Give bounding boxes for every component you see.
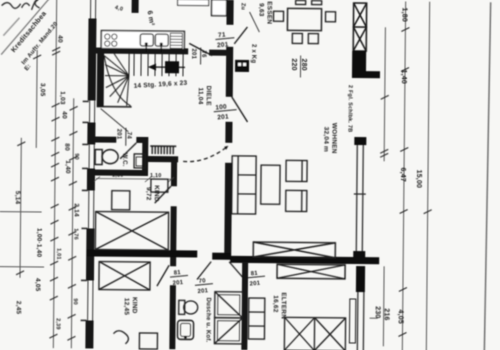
svg-text:1,80: 1,80 (400, 7, 407, 22)
svg-text:201: 201 (197, 288, 209, 295)
svg-text:32,04 m: 32,04 m (322, 127, 329, 152)
fraction 81/201 right (246, 270, 265, 288)
left dim labels (13, 35, 82, 315)
svg-text:40: 40 (56, 35, 63, 43)
wc sink (134, 154, 145, 168)
fraction 70/201 mid (194, 278, 213, 296)
wardrobe X lower (eltern) (277, 264, 345, 279)
svg-text:16,62: 16,62 (272, 295, 279, 313)
wall W7 vertical (170, 156, 177, 255)
door leaf kind2 (157, 265, 169, 286)
stair bottom edge (97, 106, 132, 108)
radiator comb (150, 146, 176, 154)
fraction 280/220 (290, 58, 307, 70)
fraction 81/201 left (169, 269, 188, 287)
fraction 76/201 kitchen door (190, 47, 206, 64)
dashed door arc hall (183, 145, 228, 162)
washbasin bath (177, 320, 193, 339)
svg-text:ESSEN: ESSEN (265, 1, 272, 24)
stamp diagonal line (1, 0, 50, 55)
svg-text:1,00·1,40: 1,00·1,40 (35, 228, 42, 258)
wall right mid-bottom (356, 266, 365, 292)
chimney black box (235, 60, 249, 72)
wc bottom wall (88, 169, 148, 176)
fraction 100/201 (213, 103, 238, 122)
diagonal below stairs (100, 109, 128, 132)
svg-text:Dusche u. Kof.: Dusche u. Kof. (204, 298, 210, 343)
toilet bath (179, 300, 185, 314)
cabinet kind1 by wall (151, 179, 168, 192)
stair left wall (97, 54, 105, 107)
svg-text:1,10: 1,10 (150, 173, 162, 179)
door leaf into kind1 (155, 186, 171, 203)
wall right solid top (352, 51, 366, 73)
svg-text:5,14: 5,14 (14, 191, 21, 205)
stair treads straight (134, 54, 183, 76)
wc top wall (88, 136, 116, 142)
kind2 chair (113, 331, 128, 344)
svg-text:1,40: 1,40 (64, 160, 71, 174)
svg-text:1,03: 1,03 (59, 91, 66, 105)
wall tie ticks (81, 101, 89, 320)
svg-text:2 Fgl. Schlbk. 7B: 2 Fgl. Schlbk. 7B (346, 85, 352, 132)
svg-text:KIND: KIND (131, 297, 138, 314)
ticks left (15, 47, 78, 341)
window cap upper (354, 137, 366, 145)
window right middle double line (353, 145, 366, 251)
door leafs on main wall (197, 261, 211, 279)
essen label (257, 1, 272, 24)
chairs (273, 0, 335, 44)
sink 2 (155, 34, 168, 46)
bed kind2 (99, 262, 150, 290)
door 100/201 leaf (232, 97, 248, 122)
svg-text:2 x Kg: 2 x Kg (250, 44, 256, 63)
svg-text:71: 71 (218, 31, 226, 39)
wc door leaf (120, 143, 136, 159)
sink 1 (140, 34, 153, 46)
wall W10 vertical (241, 262, 248, 350)
kitchen counter front edge wall (93, 47, 188, 54)
right dim labels (374, 7, 424, 324)
window x-box top right (353, 3, 366, 51)
fraction 74/201 (115, 128, 131, 146)
armchair 1 (286, 160, 307, 181)
eltern label (272, 292, 287, 319)
svg-text:201: 201 (217, 41, 229, 49)
svg-text:9,63: 9,63 (258, 3, 265, 17)
wall stub right upper (352, 71, 380, 78)
radiator bottom right (349, 299, 355, 343)
chain line 230-216 (382, 266, 385, 346)
svg-text:201: 201 (115, 129, 121, 140)
svg-text:201: 201 (190, 48, 196, 59)
wall W9 vertical (170, 257, 176, 266)
svg-text:40: 40 (61, 111, 68, 119)
svg-text:201: 201 (217, 113, 229, 121)
toilet wc (95, 150, 102, 165)
svg-text:15,00: 15,00 (415, 170, 422, 189)
wohnen label (322, 123, 337, 154)
hatched appliance (170, 33, 182, 48)
svg-text:W.C.: W.C. (121, 153, 127, 167)
window cap lower (353, 251, 365, 260)
svg-text:11,04: 11,04 (197, 87, 204, 104)
newel black block with arrow (165, 61, 179, 73)
ticks right (378, 27, 433, 336)
svg-text:90: 90 (73, 153, 79, 160)
bed eltern (284, 317, 345, 350)
kind2 small rect (139, 333, 157, 349)
svg-text:1,01: 1,01 (55, 248, 61, 260)
svg-text:3,05: 3,05 (39, 83, 46, 97)
shower boxes (214, 292, 242, 344)
dresser eltern (248, 298, 264, 339)
dining table (287, 8, 321, 30)
svg-text:1,80: 1,80 (112, 173, 124, 179)
stamp text (10, 10, 60, 72)
svg-text:2,39: 2,39 (55, 318, 61, 330)
svg-text:12,45: 12,45 (123, 298, 130, 316)
white door rect top (212, 0, 227, 16)
svg-text:4,05: 4,05 (397, 309, 404, 324)
horizontal tick line left (0, 211, 42, 213)
svg-text:1,40: 1,40 (400, 69, 407, 84)
signature scribble (2, 3, 30, 9)
svg-text:220: 220 (290, 58, 297, 70)
stray chain labels (55, 153, 80, 330)
window symbols in left wall (88, 0, 96, 320)
svg-text:DIELE: DIELE (205, 86, 212, 107)
bed kind1 (95, 212, 168, 251)
door top leaf (234, 27, 247, 44)
kitchen counter outline (101, 31, 184, 50)
stair winders fan (104, 54, 131, 106)
svg-text:Zu: Zu (240, 3, 246, 10)
kind2 label (123, 297, 138, 316)
faint extra stamp stroke (3, 18, 19, 36)
wardrobe X upper (in wohnen) (253, 242, 335, 258)
top shallow cupboard (178, 0, 209, 6)
svg-text:230: 230 (374, 306, 381, 318)
wc right wall (142, 137, 148, 176)
sofa (232, 156, 257, 214)
kind1 label (145, 185, 160, 202)
door leaf kitchen (189, 43, 212, 55)
svg-text:90: 90 (72, 298, 78, 305)
desk kind1 (112, 191, 130, 210)
svg-text:WOHNEN: WOHNEN (330, 123, 337, 154)
svg-text:2,14: 2,14 (73, 203, 80, 217)
svg-text:4,05: 4,05 (34, 278, 41, 292)
svg-text:1,76: 1,76 (72, 228, 78, 240)
window right bottom double line (357, 292, 364, 350)
small black post top (132, 0, 139, 13)
wall kitchen-diele right piece (209, 50, 230, 56)
door fraction 71/201 (215, 31, 236, 50)
small fold line left (0, 266, 44, 268)
svg-text:9,72: 9,72 (145, 187, 152, 201)
svg-text:201: 201 (249, 281, 261, 288)
svg-text:KIND: KIND (153, 185, 160, 202)
diele label (197, 85, 212, 106)
wall left solid segments (85, 18, 96, 348)
svg-text:280: 280 (300, 58, 307, 70)
stove burners (105, 34, 117, 46)
svg-text:ELTERN: ELTERN (280, 292, 287, 319)
armchair 2 (286, 190, 307, 211)
pointer line essen (249, 12, 259, 32)
coffee table (261, 165, 280, 204)
svg-text:80: 80 (63, 143, 70, 151)
svg-text:6,47: 6,47 (399, 167, 406, 182)
svg-text:2,45: 2,45 (15, 301, 22, 315)
